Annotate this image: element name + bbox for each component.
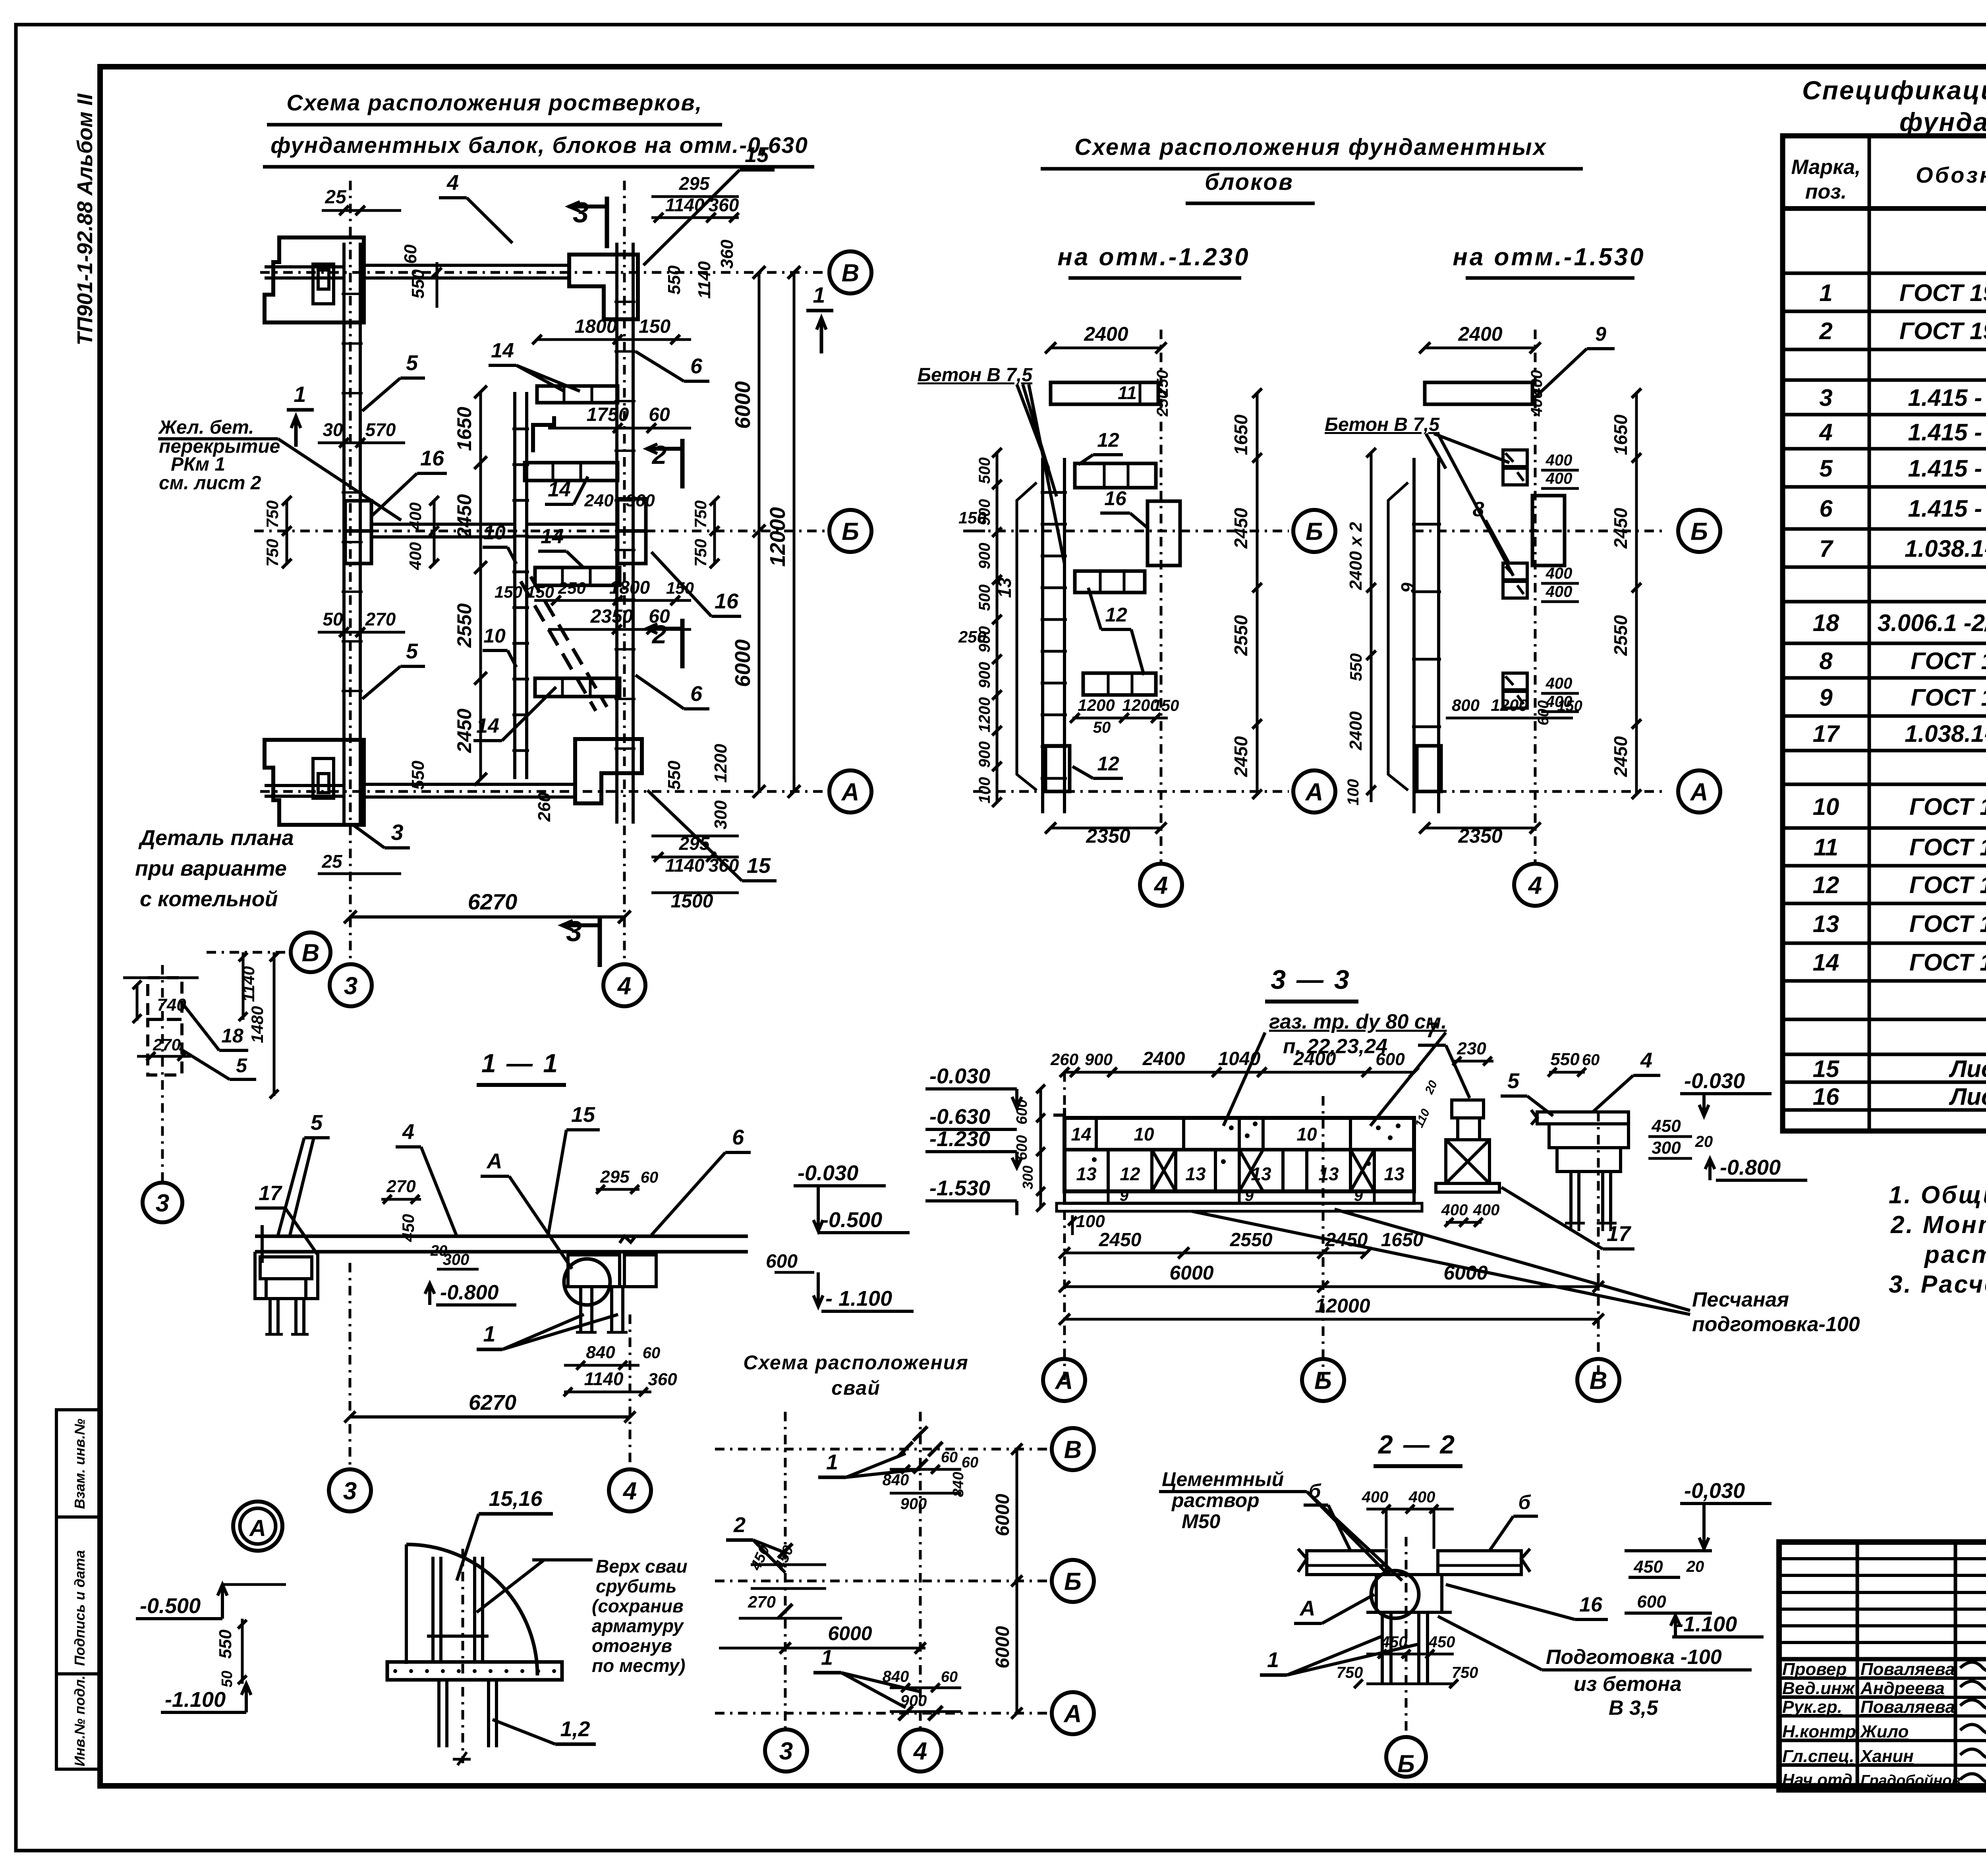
svg-text:(сохранив: (сохранив — [592, 1596, 684, 1616]
svg-text:А: А — [1063, 1700, 1082, 1727]
svg-text:800: 800 — [1452, 696, 1480, 714]
svg-text:-0.030: -0.030 — [929, 1064, 990, 1088]
BLOCK SCHEMES: Схема расположения фундаментных блоков — [918, 134, 1720, 906]
svg-text:растворе М50 с перевязкой: растворе М50 с перевязкой швов. — [1924, 1241, 1986, 1268]
svg-text:450: 450 — [1381, 1633, 1408, 1651]
svg-text:400: 400 — [1546, 583, 1573, 600]
svg-text:750: 750 — [691, 539, 710, 567]
svg-text:6270: 6270 — [469, 1391, 516, 1415]
svg-text:2550: 2550 — [1610, 615, 1631, 656]
svg-text:14: 14 — [1071, 1124, 1091, 1145]
svg-text:60: 60 — [962, 1454, 978, 1471]
svg-text:16: 16 — [420, 446, 444, 470]
svg-text:Б: Б — [1306, 518, 1323, 545]
svg-text:360: 360 — [648, 1370, 677, 1389]
svg-text:500: 500 — [976, 585, 993, 611]
svg-text:9: 9 — [1819, 684, 1833, 711]
svg-text:9: 9 — [1595, 323, 1606, 345]
MAIN PLAN: Схема расположения ростверков — [158, 90, 871, 1006]
svg-text:550: 550 — [1550, 1050, 1580, 1069]
svg-text:300: 300 — [1020, 1166, 1036, 1189]
svg-text:при варианте: при варианте — [135, 857, 287, 880]
svg-text:300: 300 — [1652, 1138, 1681, 1158]
svg-text:6000: 6000 — [992, 1626, 1013, 1668]
svg-text:ГОСТ 13579-78*: ГОСТ 13579-78* — [1909, 793, 1986, 820]
svg-text:25: 25 — [321, 851, 343, 872]
svg-text:-1.100: -1.100 — [1676, 1612, 1737, 1636]
svg-text:1: 1 — [826, 1450, 838, 1474]
svg-text:Схема расположения фундамен: Схема расположения фундаментных — [1074, 134, 1547, 160]
svg-text:Песчаная: Песчаная — [1692, 1288, 1789, 1311]
svg-text:1.415 - 1, вып. 1: 1.415 - 1, вып. 1 — [1908, 495, 1986, 522]
svg-text:ГОСТ 19804.1-79*: ГОСТ 19804.1-79* — [1899, 280, 1986, 306]
svg-text:17: 17 — [1813, 720, 1840, 747]
svg-text:4: 4 — [1528, 872, 1542, 899]
svg-text:2450: 2450 — [1610, 508, 1631, 549]
svg-text:Поваляева: Поваляева — [1860, 1660, 1955, 1679]
svg-text:-0.500: -0.500 — [140, 1594, 201, 1618]
svg-text:1: 1 — [813, 282, 825, 307]
svg-text:1. Общие примечания смотреть: 1. Общие примечания смотреть лист 1 — [1889, 1181, 1986, 1209]
svg-text:20: 20 — [1422, 1079, 1440, 1096]
svg-text:13: 13 — [1076, 1164, 1097, 1184]
svg-text:270: 270 — [365, 609, 396, 629]
svg-text:16: 16 — [1579, 1593, 1603, 1616]
svg-text:12: 12 — [1097, 753, 1119, 775]
SPEC TABLE — [1783, 75, 1986, 1131]
svg-text:4: 4 — [617, 972, 631, 1000]
svg-text:17: 17 — [1607, 1222, 1632, 1246]
svg-text:450: 450 — [399, 1214, 417, 1242]
svg-text:Ханин: Ханин — [1859, 1747, 1914, 1766]
svg-text:3: 3 — [343, 1477, 357, 1505]
svg-text:400: 400 — [1441, 1201, 1468, 1219]
svg-text:-0.800: -0.800 — [440, 1281, 499, 1304]
svg-text:150: 150 — [495, 583, 522, 601]
svg-text:13: 13 — [1813, 911, 1839, 937]
TITLE BLOCK (штамп) — [1779, 1410, 1986, 1841]
svg-text:1040: 1040 — [1218, 1048, 1261, 1069]
svg-text:4: 4 — [1640, 1048, 1652, 1072]
svg-text:3.006.1 -2/82 вып. 1-2: 3.006.1 -2/82 вып. 1-2 — [1878, 610, 1986, 636]
svg-text:А: А — [486, 1149, 502, 1173]
svg-text:Взам. инв.№: Взам. инв.№ — [71, 1419, 88, 1509]
svg-text:550: 550 — [665, 760, 684, 790]
svg-text:5: 5 — [236, 1054, 247, 1077]
svg-text:150: 150 — [666, 579, 694, 597]
svg-text:500: 500 — [976, 457, 993, 484]
svg-text:25: 25 — [325, 187, 347, 208]
svg-text:550: 550 — [1347, 653, 1365, 681]
svg-text:б: б — [1518, 1491, 1532, 1513]
svg-text:Б: Б — [1397, 1750, 1415, 1778]
svg-text:Спецификация к схемам распо: Спецификация к схемам расположения роств… — [1802, 75, 1986, 105]
svg-text:30: 30 — [323, 419, 343, 440]
svg-text:5: 5 — [406, 351, 418, 375]
svg-text:400: 400 — [406, 502, 425, 531]
svg-text:ТП901-1-92.88 Альбом II: ТП901-1-92.88 Альбом II — [73, 93, 97, 345]
svg-text:Деталь плана: Деталь плана — [138, 826, 294, 850]
svg-text:400: 400 — [1546, 675, 1573, 692]
svg-text:18: 18 — [1813, 610, 1839, 636]
svg-text:1200: 1200 — [1491, 696, 1528, 714]
svg-text:10: 10 — [1134, 1124, 1154, 1145]
svg-text:50: 50 — [323, 609, 343, 629]
svg-text:2550: 2550 — [1231, 615, 1251, 656]
svg-text:-1.230: -1.230 — [929, 1127, 990, 1151]
svg-text:2: 2 — [733, 1513, 746, 1537]
svg-text:5: 5 — [1819, 455, 1833, 482]
svg-text:60: 60 — [1582, 1051, 1600, 1069]
svg-text:Обозначение: Обозначение — [1916, 162, 1986, 187]
svg-text:12000: 12000 — [1315, 1295, 1370, 1317]
svg-text:3: 3 — [391, 820, 403, 845]
svg-text:ГОСТ 19804.1-79*: ГОСТ 19804.1-79* — [1899, 318, 1986, 344]
svg-text:3: 3 — [779, 1737, 793, 1765]
svg-text:Подготовка -100: Подготовка -100 — [1546, 1646, 1722, 1669]
svg-text:Гл.спец.: Гл.спец. — [1782, 1747, 1854, 1766]
svg-text:2400 х 2: 2400 х 2 — [1346, 522, 1366, 591]
svg-text:750: 750 — [263, 500, 282, 528]
SECTION 2-2 — [1159, 1430, 1772, 1778]
svg-text:4: 4 — [913, 1737, 927, 1765]
svg-text:см. лист 2: см. лист 2 — [159, 473, 261, 494]
svg-text:6: 6 — [1819, 495, 1833, 522]
svg-text:900: 900 — [900, 1495, 927, 1513]
svg-text:Лист 18: Лист 18 — [1949, 1056, 1986, 1082]
svg-text:150: 150 — [958, 508, 986, 527]
svg-text:400: 400 — [1546, 565, 1573, 582]
svg-text:Цементный: Цементный — [1162, 1468, 1284, 1490]
svg-text:16: 16 — [715, 589, 739, 613]
svg-text:6: 6 — [690, 682, 703, 706]
svg-text:1200: 1200 — [976, 697, 993, 733]
svg-text:фундаментных балок, блоков: фундаментных балок, блоков на отм.-0,630 — [270, 133, 808, 158]
svg-text:16: 16 — [1813, 1083, 1839, 1110]
svg-text:на отм.-1.530: на отм.-1.530 — [1453, 243, 1645, 271]
svg-text:3: 3 — [566, 916, 582, 948]
svg-text:Нач.отд.: Нач.отд. — [1782, 1770, 1857, 1789]
svg-text:6000: 6000 — [992, 1494, 1013, 1536]
svg-text:2450: 2450 — [1610, 736, 1631, 777]
svg-text:2450: 2450 — [1099, 1229, 1142, 1251]
svg-text:1.038.1-1, вып. 1: 1.038.1-1, вып. 1 — [1905, 535, 1986, 562]
svg-text:270: 270 — [386, 1177, 416, 1196]
svg-text:16: 16 — [1104, 487, 1127, 510]
svg-text:4: 4 — [446, 171, 459, 195]
svg-text:6270: 6270 — [468, 889, 518, 914]
svg-text:2350: 2350 — [1458, 825, 1502, 847]
svg-text:60: 60 — [401, 244, 420, 264]
svg-text:1750: 1750 — [587, 404, 629, 425]
svg-text:блоков: блоков — [1205, 169, 1294, 195]
svg-text:Марка,: Марка, — [1791, 156, 1861, 179]
svg-text:свай: свай — [831, 1377, 881, 1399]
svg-text:240: 240 — [584, 491, 614, 510]
svg-text:ГОСТ 13579-78*: ГОСТ 13579-78* — [1909, 872, 1986, 898]
svg-text:1650: 1650 — [1610, 414, 1631, 455]
svg-text:600: 600 — [1637, 1592, 1666, 1612]
svg-text:-1.530: -1.530 — [929, 1176, 990, 1200]
svg-text:-0.030: -0.030 — [798, 1161, 858, 1185]
svg-text:18: 18 — [221, 1025, 243, 1047]
svg-text:-0,030: -0,030 — [1684, 1479, 1745, 1503]
svg-text:А: А — [1299, 1596, 1316, 1620]
svg-text:2400: 2400 — [1458, 323, 1502, 345]
svg-text:1.415 - 1, вып. 1: 1.415 - 1, вып. 1 — [1908, 419, 1986, 446]
svg-text:750: 750 — [691, 500, 710, 528]
svg-text:Поваляева: Поваляева — [1860, 1697, 1955, 1717]
svg-text:150: 150 — [1153, 697, 1179, 714]
svg-text:260: 260 — [1050, 1050, 1078, 1069]
svg-text:12: 12 — [1120, 1164, 1140, 1184]
svg-text:900: 900 — [976, 662, 993, 689]
svg-text:600: 600 — [1014, 1135, 1030, 1160]
SECTION 1-1 — [255, 1048, 914, 1511]
svg-text:Б: Б — [1064, 1568, 1082, 1595]
svg-text:60: 60 — [643, 1344, 661, 1362]
svg-text:550: 550 — [216, 1629, 235, 1659]
svg-text:750: 750 — [1337, 1664, 1363, 1681]
svg-text:В: В — [1064, 1436, 1082, 1463]
svg-text:-0.800: -0.800 — [1720, 1156, 1781, 1179]
svg-text:В: В — [842, 259, 860, 287]
svg-text:15: 15 — [747, 854, 771, 878]
axis beams — [265, 265, 618, 797]
svg-text:3: 3 — [344, 972, 357, 1000]
svg-text:5: 5 — [1507, 1069, 1520, 1093]
svg-text:400: 400 — [1408, 1488, 1435, 1506]
svg-text:2400: 2400 — [1293, 1048, 1336, 1069]
svg-text:Подпись и дата: Подпись и дата — [71, 1550, 88, 1666]
svg-text:Н.контр: Н.контр — [1782, 1722, 1856, 1741]
svg-text:9: 9 — [1397, 583, 1418, 593]
svg-text:-0.500: -0.500 — [821, 1208, 882, 1232]
NOTES — [1889, 1181, 1986, 1298]
svg-text:Б: Б — [842, 518, 859, 545]
svg-text:50: 50 — [1093, 719, 1111, 736]
svg-text:750: 750 — [263, 539, 282, 567]
svg-text:газ. тр. dу 80 см.: газ. тр. dу 80 см. — [1269, 1010, 1447, 1033]
svg-text:4: 4 — [1819, 419, 1832, 446]
svg-text:1.038.1-1, вып. 2: 1.038.1-1, вып. 2 — [1905, 720, 1986, 747]
svg-text:50: 50 — [219, 1671, 236, 1687]
svg-text:Б: Б — [1690, 518, 1708, 545]
svg-text:150: 150 — [1557, 698, 1582, 714]
svg-text:2450: 2450 — [1231, 508, 1251, 549]
svg-text:2450: 2450 — [453, 708, 475, 753]
svg-text:б: б — [1309, 1480, 1322, 1502]
svg-text:14: 14 — [491, 339, 514, 362]
svg-text:Бетон В 7,5: Бетон В 7,5 — [1325, 414, 1440, 435]
svg-text:1: 1 — [1267, 1648, 1279, 1672]
svg-text:В 3,5: В 3,5 — [1609, 1697, 1658, 1720]
svg-text:6: 6 — [690, 354, 703, 378]
svg-text:400: 400 — [1473, 1201, 1500, 1219]
svg-text:Верх сваи: Верх сваи — [596, 1556, 688, 1577]
svg-text:с котельной: с котельной — [140, 887, 278, 911]
svg-text:2550: 2550 — [453, 603, 475, 648]
svg-text:14: 14 — [548, 478, 571, 501]
svg-text:4: 4 — [1153, 872, 1168, 899]
svg-text:1140: 1140 — [695, 261, 714, 299]
svg-text:295: 295 — [600, 1167, 630, 1187]
svg-text:300: 300 — [443, 1251, 469, 1268]
svg-text:подготовка-100: подготовка-100 — [1692, 1313, 1860, 1336]
svg-text:по месту): по месту) — [592, 1655, 685, 1676]
svg-text:ГОСТ 13580 -85: ГОСТ 13580 -85 — [1911, 648, 1986, 674]
svg-text:750: 750 — [1452, 1664, 1478, 1681]
svg-text:1: 1 — [821, 1646, 833, 1669]
svg-text:4: 4 — [402, 1120, 414, 1144]
svg-text:на отм.-1.230: на отм.-1.230 — [1057, 243, 1250, 271]
svg-text:550: 550 — [665, 265, 684, 295]
svg-text:6000: 6000 — [731, 381, 755, 429]
svg-text:13: 13 — [1384, 1164, 1404, 1184]
svg-text:- 1.100: - 1.100 — [825, 1287, 892, 1310]
left margin boxes — [56, 1410, 100, 1517]
svg-text:2400: 2400 — [1084, 323, 1128, 345]
svg-text:400: 400 — [406, 542, 425, 570]
svg-text:А: А — [1690, 778, 1708, 806]
svg-text:100: 100 — [976, 777, 993, 804]
svg-text:1140: 1140 — [584, 1368, 624, 1389]
svg-text:15,16: 15,16 — [489, 1487, 543, 1511]
svg-text:-1.100: -1.100 — [165, 1688, 226, 1712]
svg-text:Лист 18: Лист 18 — [1949, 1083, 1986, 1110]
svg-text:15: 15 — [1813, 1056, 1840, 1082]
svg-text:230: 230 — [1457, 1039, 1486, 1058]
svg-text:600: 600 — [1535, 700, 1552, 725]
svg-text:2. Монтаж блоков вести на: 2. Монтаж блоков вести на цементном — [1890, 1211, 1986, 1239]
svg-text:9: 9 — [1120, 1187, 1129, 1204]
svg-text:2550: 2550 — [1230, 1229, 1273, 1251]
svg-text:Градобойнов: Градобойнов — [1860, 1772, 1961, 1789]
svg-text:2400: 2400 — [1346, 711, 1366, 751]
svg-text:100: 100 — [1076, 1212, 1105, 1231]
svg-text:А: А — [1305, 778, 1323, 806]
svg-text:Схема расположения ростверко: Схема расположения ростверков, — [286, 90, 702, 116]
svg-text:2350: 2350 — [1086, 825, 1130, 847]
svg-text:12000: 12000 — [766, 507, 790, 567]
svg-text:360: 360 — [717, 239, 737, 269]
svg-text:1140: 1140 — [665, 855, 705, 876]
svg-text:60: 60 — [941, 1449, 958, 1466]
svg-text:1.415 - 1, вып. 1: 1.415 - 1, вып. 1 — [1908, 384, 1986, 411]
DETAIL A circle — [136, 1502, 286, 1712]
svg-text:6: 6 — [732, 1125, 744, 1149]
svg-text:А: А — [841, 778, 860, 806]
svg-text:10: 10 — [1296, 1124, 1317, 1145]
svg-text:5: 5 — [311, 1111, 323, 1135]
svg-text:Бетон В 7,5: Бетон В 7,5 — [918, 365, 1033, 386]
svg-text:ГОСТ 13580 -85: ГОСТ 13580 -85 — [1911, 684, 1986, 711]
svg-text:450: 450 — [1651, 1116, 1681, 1136]
svg-text:900: 900 — [1085, 1050, 1113, 1069]
svg-text:2400: 2400 — [1142, 1048, 1185, 1069]
svg-text:срубить: срубить — [596, 1576, 676, 1596]
PILE LAYOUT: Схема расположения свай — [715, 1351, 1094, 1772]
svg-text:2450: 2450 — [453, 494, 475, 538]
svg-text:600: 600 — [1376, 1050, 1405, 1069]
svg-text:1: 1 — [1819, 280, 1832, 306]
svg-text:13: 13 — [994, 577, 1015, 598]
svg-text:270: 270 — [748, 1592, 776, 1611]
svg-text:60: 60 — [941, 1669, 958, 1685]
svg-text:20: 20 — [1695, 1133, 1713, 1150]
svg-text:Вед.инж: Вед.инж — [1782, 1679, 1856, 1698]
svg-text:2350: 2350 — [590, 606, 633, 627]
svg-text:1200: 1200 — [1078, 696, 1115, 714]
svg-text:250: 250 — [558, 579, 586, 597]
svg-text:3. Расчетная нагрузка на св: 3. Расчетная нагрузка на сваю Nсв=18,0т. — [1889, 1271, 1986, 1298]
svg-text:Жило: Жило — [1860, 1722, 1909, 1741]
svg-text:поз.: поз. — [1805, 180, 1847, 203]
svg-text:150: 150 — [639, 316, 670, 337]
svg-text:11: 11 — [1118, 382, 1137, 403]
svg-text:Жел. бет.: Жел. бет. — [158, 417, 254, 438]
svg-text:А: А — [1055, 1367, 1073, 1394]
svg-text:1: 1 — [483, 1321, 495, 1346]
svg-text:295: 295 — [679, 173, 710, 194]
svg-text:1800: 1800 — [575, 316, 617, 337]
svg-text:10: 10 — [1813, 793, 1839, 820]
svg-text:4: 4 — [622, 1477, 637, 1505]
svg-text:Инв.№ подл.: Инв.№ подл. — [71, 1675, 88, 1766]
svg-text:3: 3 — [1819, 384, 1832, 411]
svg-text:5: 5 — [406, 639, 418, 663]
DETAIL PLAN AT BOILER VARIANT text — [123, 826, 330, 1222]
svg-text:Провер: Провер — [1782, 1660, 1847, 1679]
svg-text:60: 60 — [649, 404, 670, 425]
svg-text:14: 14 — [476, 714, 499, 737]
svg-text:400: 400 — [1546, 452, 1573, 469]
svg-text:-0.030: -0.030 — [1684, 1069, 1745, 1093]
svg-text:7: 7 — [1426, 1018, 1439, 1042]
svg-text:450: 450 — [1633, 1557, 1663, 1577]
svg-text:400: 400 — [1546, 470, 1573, 487]
svg-text:1: 1 — [294, 382, 306, 407]
wall block joints — [342, 293, 363, 295]
svg-text:1480: 1480 — [248, 1006, 267, 1043]
svg-text:10: 10 — [483, 625, 506, 647]
svg-text:900: 900 — [976, 741, 993, 768]
svg-text:из бетона: из бетона — [1574, 1673, 1682, 1696]
svg-text:2450: 2450 — [1231, 736, 1251, 777]
svg-text:9: 9 — [1245, 1187, 1254, 1204]
svg-text:Рук.гр.: Рук.гр. — [1782, 1697, 1842, 1717]
svg-text:900: 900 — [976, 543, 993, 569]
svg-text:3: 3 — [156, 1189, 169, 1217]
svg-text:Андреева: Андреева — [1860, 1679, 1945, 1698]
svg-text:150: 150 — [526, 583, 554, 601]
svg-text:9: 9 — [1354, 1187, 1363, 1204]
SECTION 3-3 — [925, 965, 1860, 1401]
svg-text:1650: 1650 — [1231, 414, 1251, 455]
svg-text:3 — 3: 3 — 3 — [1271, 965, 1350, 995]
svg-text:840: 840 — [586, 1343, 615, 1362]
svg-text:600: 600 — [766, 1251, 798, 1272]
svg-text:6000: 6000 — [731, 639, 755, 687]
svg-text:8: 8 — [1819, 648, 1833, 674]
svg-text:-0.630: -0.630 — [929, 1105, 990, 1129]
svg-text:фундаментных балок, блоков,: фундаментных балок, блоков, свай. — [1899, 107, 1986, 137]
svg-text:2 — 2: 2 — 2 — [1377, 1430, 1456, 1459]
svg-text:12: 12 — [1097, 429, 1119, 451]
svg-text:М50: М50 — [1182, 1510, 1220, 1532]
svg-text:2: 2 — [1819, 318, 1832, 344]
svg-text:550: 550 — [408, 269, 428, 299]
